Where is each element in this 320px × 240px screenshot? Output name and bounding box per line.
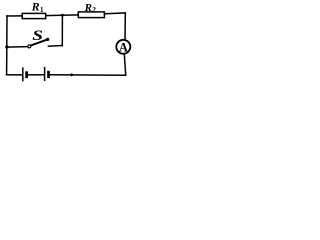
wire top-middle segment	[46, 14, 79, 17]
wire switch right segment	[48, 45, 62, 48]
switch S pivot terminal	[28, 45, 31, 48]
wire left vertical	[6, 16, 8, 75]
resistor R1	[22, 13, 46, 18]
wire switch left segment	[7, 46, 28, 49]
wire top-left segment	[7, 15, 22, 17]
wire bottom between cells	[28, 74, 44, 76]
battery B1 cell1 long plate	[22, 67, 24, 81]
wire bottom left segment	[7, 74, 22, 76]
label S (switch)	[32, 27, 43, 44]
svg-text:A: A	[119, 40, 128, 54]
wire middle branch vertical	[61, 15, 63, 45]
svg-text:S: S	[32, 27, 43, 44]
wire right vertical lower (ammeter to bottom)	[124, 54, 125, 75]
switch S blade tip contact	[46, 38, 49, 41]
node junction left (on left wire)	[5, 45, 8, 48]
wire top-right segment	[104, 12, 125, 15]
ammeter A1 circle	[116, 40, 130, 54]
battery B1 cell2 long plate	[44, 67, 46, 81]
wire bottom right segment	[50, 74, 126, 76]
node junction top (between R1 and R2)	[61, 14, 64, 17]
resistor R2	[78, 12, 104, 18]
wire right vertical upper (to ammeter)	[124, 13, 126, 40]
switch S blade	[30, 39, 48, 45]
battery B1 cell2 short thick plate	[47, 71, 50, 78]
node dot bottom wire	[70, 73, 73, 76]
battery B1 cell1 short thick plate	[25, 71, 28, 78]
